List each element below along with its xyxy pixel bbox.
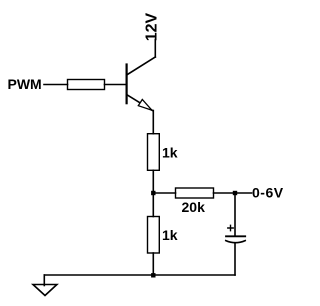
svg-text:1k: 1k <box>162 145 178 161</box>
wire collector to 12V <box>154 40 156 58</box>
node B junction <box>233 191 237 195</box>
transistor Q1 emitter arrow <box>138 100 152 111</box>
wire node B to capacitor C1 <box>234 193 236 236</box>
capacitor C1 top plate <box>226 235 245 237</box>
resistor R3 1k <box>148 217 160 254</box>
wire capacitor C1 to bottom rail <box>234 243 236 275</box>
ground symbol <box>33 285 57 296</box>
transistor Q1 base bar <box>125 65 127 104</box>
resistor R4 20k <box>176 188 214 198</box>
wire PWM to R1 <box>44 84 68 86</box>
wire R3 to bottom rail <box>152 253 154 275</box>
wire R4 to node B <box>214 192 252 194</box>
transistor Q1 emitter line <box>127 95 153 111</box>
wire bottom rail <box>44 274 235 276</box>
svg-text:PWM: PWM <box>8 76 42 92</box>
node C junction <box>151 273 155 277</box>
capacitor C1 plus sign <box>228 225 233 230</box>
svg-text:0-6V: 0-6V <box>252 184 284 200</box>
transistor Q1 collector line <box>127 57 156 75</box>
capacitor C1 bottom plate <box>226 241 245 243</box>
resistor R2 1k <box>148 134 160 171</box>
wire emitter to R2 <box>152 111 154 134</box>
svg-text:20k: 20k <box>182 199 206 215</box>
wire node A to R4 <box>153 192 175 194</box>
svg-text:1k: 1k <box>162 227 178 243</box>
resistor R1 (base resistor) <box>68 80 105 90</box>
svg-text:12V: 12V <box>143 13 160 42</box>
wire ground stub <box>43 275 45 286</box>
wire R2 to node A and R3 <box>152 170 154 216</box>
wire R1 to Q1 base <box>105 84 127 86</box>
node A junction <box>151 191 155 195</box>
